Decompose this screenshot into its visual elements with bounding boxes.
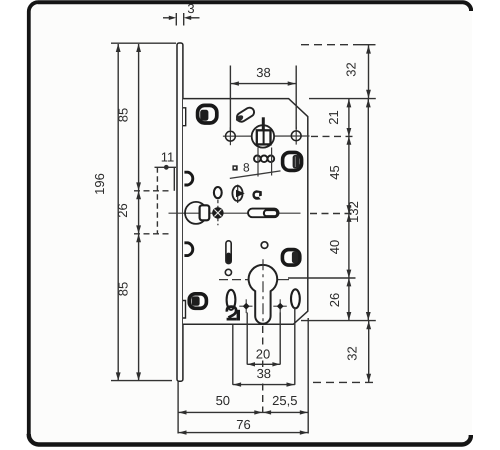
- dark hub with cross: [212, 207, 223, 218]
- svg-text:50: 50: [216, 393, 230, 408]
- bottom extension line left of faceplate: [111, 380, 172, 382]
- dim line 20: [247, 363, 280, 365]
- right extension body-bottom level: [301, 320, 376, 322]
- dim line 50 / 25,5: [178, 411, 308, 413]
- cylinder horizontal centerline: [219, 279, 248, 281]
- follower centerline: [223, 135, 310, 137]
- dashed line 26-bottom: [134, 233, 170, 235]
- right extension line body-top level: [309, 98, 376, 100]
- cam piece: [237, 185, 239, 203]
- right dash-dot follower centerline: [311, 135, 354, 137]
- svg-text:38: 38: [257, 366, 271, 381]
- hub axis dashes: [217, 200, 219, 225]
- cross fixing hole left of cylinder: [239, 305, 252, 307]
- latch centerline: [169, 212, 249, 214]
- svg-text:196: 196: [92, 173, 107, 195]
- latch bolt circle: [185, 202, 207, 224]
- dim column 132: [367, 99, 369, 321]
- right dash-dot faceplate-bottom level: [313, 381, 374, 383]
- screw hole D lower-right: [282, 250, 299, 266]
- lock body outline: [183, 99, 308, 325]
- svg-text:8: 8: [243, 161, 250, 175]
- svg-text:11: 11: [161, 150, 175, 165]
- clip piece: [252, 190, 261, 200]
- oval fixing slot right: [291, 289, 300, 308]
- dimension texts: [92, 1, 361, 432]
- dim line 3 left seg: [163, 17, 170, 19]
- extension line top-38 left: [229, 66, 231, 131]
- oblique slot top: [235, 106, 256, 123]
- staple hook upper-left: [184, 172, 192, 185]
- dashed vertical backset line: [156, 167, 158, 234]
- bottom extension oval left: [232, 325, 234, 385]
- right dash-dot latch centerline: [310, 213, 354, 215]
- dashed line 26-top: [134, 190, 170, 192]
- svg-text:38: 38: [256, 65, 270, 80]
- svg-text:20: 20: [256, 346, 270, 361]
- cross fixing hole right of cylinder: [273, 305, 287, 307]
- svg-text:85: 85: [116, 108, 131, 122]
- small oval above hub: [214, 187, 222, 198]
- bottom extension cross-hole right: [279, 313, 281, 365]
- right extension cylinder centerline: [288, 277, 356, 279]
- dim line 38 bottom: [233, 384, 295, 386]
- oblique dim line for square 8: [230, 171, 281, 179]
- dim line 3 right seg: [191, 17, 200, 19]
- svg-text:25,5: 25,5: [272, 393, 297, 408]
- svg-text:32: 32: [344, 346, 359, 360]
- spring slot vertical: [226, 241, 231, 264]
- dim line 76: [178, 432, 308, 434]
- faceplate: [177, 43, 183, 381]
- svg-text:40: 40: [327, 240, 342, 254]
- extension line top-38 right: [295, 66, 297, 130]
- square symbol of 8mm note: [232, 165, 237, 170]
- svg-text:132: 132: [346, 201, 361, 223]
- screw hole D lower-left: [189, 294, 206, 309]
- screw hole D upper-left: [198, 105, 217, 123]
- top extension line left of faceplate: [111, 42, 176, 44]
- extension stubs for 3: [175, 13, 177, 26]
- bottom extension below faceplate: [177, 382, 179, 434]
- stop lever 2-shape: [227, 307, 237, 320]
- text halos: [254, 347, 272, 360]
- dim column 21/45/40/26: [348, 99, 350, 321]
- follower hub with 8mm square: [252, 125, 274, 147]
- svg-text:21: 21: [326, 110, 341, 124]
- svg-text:85: 85: [116, 282, 131, 296]
- fixing hole M5 left: [229, 127, 231, 145]
- svg-text:32: 32: [343, 62, 358, 76]
- right dash-dot line faceplate-top level: [301, 44, 360, 46]
- arrowheads: [116, 16, 371, 435]
- dim line 38 top: [230, 83, 296, 85]
- staple hook lower-left: [184, 243, 192, 256]
- dim line 85/26/85 vertical: [138, 44, 140, 380]
- dim line 32 top: [368, 45, 370, 98]
- svg-text:45: 45: [327, 165, 342, 179]
- square-8 extension lines: [257, 148, 259, 177]
- svg-text:3: 3: [187, 1, 194, 16]
- border frame left: [29, 2, 38, 435]
- cylinder vertical centerline: [262, 259, 264, 325]
- fixing hole M5 right: [295, 127, 297, 145]
- bottom extension body-right: [307, 318, 309, 434]
- dim line 196 vertical: [117, 44, 119, 380]
- bottom extension oval right: [294, 308, 296, 385]
- spring rings below follower: [254, 156, 274, 163]
- dim line 11: [155, 166, 177, 168]
- svg-text:26: 26: [115, 203, 130, 217]
- small hole above cylinder: [261, 242, 268, 249]
- bottom dash-dot cylinder centerline extension: [262, 326, 264, 412]
- dim line 32 bottom: [368, 321, 370, 382]
- svg-text:76: 76: [236, 417, 250, 432]
- border frame top: [38, 2, 471, 11]
- screw hole D upper-right: [283, 152, 302, 170]
- latch square notch: [200, 205, 210, 220]
- small hole below spring slot: [225, 269, 231, 275]
- oval fixing slot left: [227, 290, 236, 310]
- slider inside capsule: [264, 210, 277, 216]
- border frame bottom: [29, 434, 471, 445]
- bottom extension cross-hole left: [246, 313, 248, 365]
- euro cylinder profile: [249, 265, 278, 324]
- faceplate notch lower: [183, 301, 186, 319]
- svg-text:26: 26: [327, 293, 342, 307]
- short vertical line at 11-dim right: [173, 167, 175, 191]
- adjusting slot capsule: [248, 209, 279, 218]
- faceplate notch upper: [183, 108, 186, 126]
